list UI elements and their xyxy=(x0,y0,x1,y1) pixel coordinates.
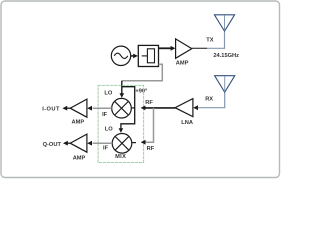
wire amp I to I-OUT xyxy=(62,106,70,111)
svg-text:AMP: AMP xyxy=(73,156,86,162)
svg-text:AMP: AMP xyxy=(176,61,189,67)
svg-text:24.15GHz: 24.15GHz xyxy=(213,53,239,59)
wire IF mixer1 to amp I (gray) xyxy=(93,107,112,109)
svg-text:LNA: LNA xyxy=(181,120,193,126)
svg-text:LO: LO xyxy=(105,127,113,133)
wire splitter LO branch down (gray) xyxy=(122,64,163,81)
svg-text:LO: LO xyxy=(104,91,112,97)
dashed group box (quadrature demodulator) xyxy=(98,85,144,162)
svg-text:RX: RX xyxy=(205,97,213,103)
amplifier AMP (TX) xyxy=(176,39,192,67)
svg-text:TX: TX xyxy=(206,38,213,44)
svg-text:IF: IF xyxy=(103,146,109,152)
wire +90 degree branch to mixer 2 xyxy=(119,87,135,133)
arrow into amp Q input xyxy=(87,141,92,146)
amplifier AMP (I) xyxy=(70,99,87,126)
wire IF mixer2 to amp Q (gray) xyxy=(93,142,113,144)
mixer MIX2 (Q) xyxy=(112,134,136,160)
svg-text:IF: IF xyxy=(102,112,108,118)
svg-text:RF: RF xyxy=(147,146,155,152)
wire LNA output to mixer1 RF xyxy=(141,106,175,111)
arrow into LNA input xyxy=(193,105,198,110)
svg-text:MIX: MIX xyxy=(115,154,126,160)
oscillator OSC xyxy=(111,46,130,65)
svg-text:Q-OUT: Q-OUT xyxy=(43,142,62,148)
svg-text:+90°: +90° xyxy=(135,89,148,95)
svg-text:AMP: AMP xyxy=(72,120,85,126)
antenna ANT2 (RX) xyxy=(198,76,235,108)
splitter box U1 (crystal/phase block) xyxy=(138,45,158,66)
wire TX amp to antenna xyxy=(192,47,207,49)
amplifier AMP (Q) xyxy=(70,134,87,162)
wire LO drop into mixer 1 xyxy=(120,81,125,98)
wire oscillator to splitter xyxy=(131,54,138,59)
wire splitter to TX amp xyxy=(159,46,176,51)
wire RF branch to mixer2 (gray) xyxy=(141,108,154,145)
svg-text:RF: RF xyxy=(145,100,153,106)
svg-text:I-OUT: I-OUT xyxy=(42,107,60,113)
border frame xyxy=(1,1,280,178)
arrow into amp I input xyxy=(87,106,92,111)
wire amp Q to Q-OUT xyxy=(63,141,70,146)
amplifier LNA xyxy=(175,99,193,126)
mixer MIX1 (I) xyxy=(112,98,135,118)
antenna ANT1 (TX) xyxy=(207,15,235,49)
